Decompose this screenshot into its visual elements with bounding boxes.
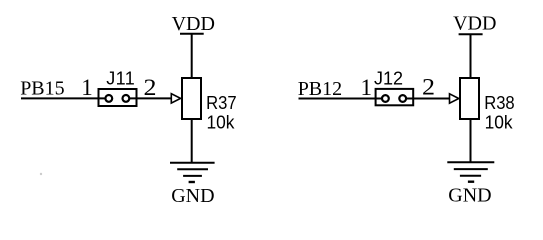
wire PB15 net to J11 pin 1 [21, 97, 105, 99]
svg-text:J11: J11 [106, 68, 135, 88]
svg-text:VDD: VDD [453, 13, 496, 35]
svg-text:GND: GND [171, 185, 214, 207]
J11 pin 2 pad [123, 95, 130, 102]
svg-text:1: 1 [81, 75, 93, 100]
svg-text:10k: 10k [207, 112, 236, 132]
J12 pin 2 pad [399, 95, 406, 102]
svg-text:1: 1 [361, 75, 373, 100]
resistor R38 (potentiometer body) [460, 78, 479, 119]
connector J12 body [376, 89, 414, 105]
svg-text:PB15: PB15 [20, 78, 64, 100]
ground symbol (right) [447, 162, 494, 181]
wire VDD to R38 top [470, 34, 472, 78]
J11 pin 1 pad [105, 95, 112, 102]
wire R38 bottom to ground [470, 119, 472, 162]
svg-text:2: 2 [422, 74, 435, 99]
svg-text:2: 2 [144, 75, 157, 100]
wire VDD to R37 top [191, 34, 193, 78]
wire J11 pin 2 to R37 wiper [130, 97, 171, 99]
J12 pin 1 pad [382, 95, 389, 102]
svg-text:R38: R38 [484, 93, 515, 113]
svg-text:VDD: VDD [172, 13, 215, 35]
wire R37 bottom to ground [191, 119, 193, 163]
svg-text:R37: R37 [206, 93, 237, 113]
svg-text:10k: 10k [485, 112, 514, 132]
R37 wiper arrow [171, 94, 180, 103]
svg-text:J12: J12 [374, 68, 403, 88]
power symbol VDD (right) [459, 33, 483, 35]
resistor R37 (potentiometer body) [182, 78, 201, 119]
svg-text:PB12: PB12 [298, 78, 342, 100]
power symbol VDD (left) [180, 33, 204, 35]
stray faint dot [40, 173, 42, 175]
wire J12 pin 2 to R38 wiper [407, 98, 450, 100]
ground symbol (left) [170, 163, 215, 182]
connector J11 body [99, 89, 137, 106]
svg-text:GND: GND [448, 184, 491, 206]
R38 wiper arrow [450, 94, 459, 103]
wire PB12 net to J12 pin 1 [299, 98, 382, 100]
